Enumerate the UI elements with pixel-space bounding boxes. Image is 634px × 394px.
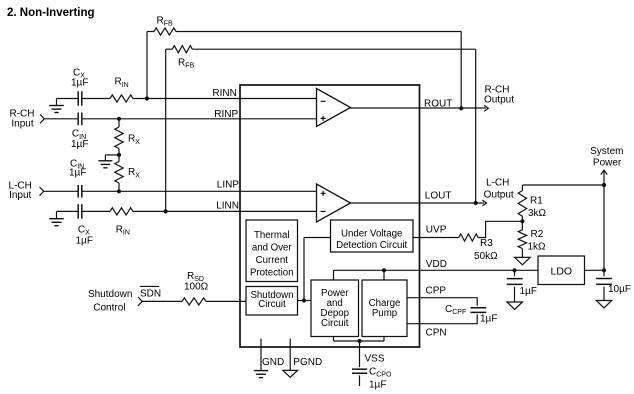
svg-text:1kΩ: 1kΩ [528, 241, 547, 252]
svg-text:RINP: RINP [214, 109, 238, 120]
svg-text:VSS: VSS [365, 354, 385, 365]
svg-text:SDN: SDN [140, 288, 161, 299]
svg-text:LOUT: LOUT [425, 191, 452, 202]
svg-text:100Ω: 100Ω [184, 281, 209, 292]
svg-text:R3: R3 [480, 238, 493, 249]
svg-text:Circuit: Circuit [321, 318, 349, 329]
svg-text:Output: Output [484, 94, 514, 105]
svg-text:Output: Output [484, 189, 514, 200]
svg-text:CPN: CPN [426, 328, 447, 339]
svg-text:L-CH: L-CH [486, 177, 509, 188]
svg-text:R2: R2 [531, 229, 544, 240]
svg-text:Input: Input [11, 119, 33, 130]
svg-text:Shutdown: Shutdown [88, 289, 132, 300]
svg-text:1µF: 1µF [76, 236, 93, 247]
svg-text:R1: R1 [530, 196, 543, 207]
svg-text:and Over: and Over [252, 243, 293, 254]
svg-text:LINP: LINP [217, 180, 240, 191]
svg-text:10µF: 10µF [608, 284, 631, 295]
svg-text:ROUT: ROUT [424, 99, 452, 110]
svg-text:System: System [590, 146, 623, 157]
svg-text:CPP: CPP [426, 286, 447, 297]
svg-text:PGND: PGND [293, 357, 322, 368]
svg-text:LDO: LDO [551, 266, 573, 278]
svg-text:1µF: 1µF [69, 168, 86, 179]
svg-text:Control: Control [93, 302, 125, 313]
svg-text:3kΩ: 3kΩ [528, 208, 547, 219]
svg-text:Current: Current [256, 255, 289, 266]
svg-text:Thermal: Thermal [254, 230, 290, 241]
svg-text:LINN: LINN [216, 201, 239, 212]
svg-text:1µF: 1µF [369, 379, 386, 390]
svg-text:Under Voltage: Under Voltage [341, 228, 402, 239]
svg-text:RINN: RINN [212, 88, 236, 99]
svg-text:Protection: Protection [250, 267, 294, 278]
svg-text:1µF: 1µF [480, 314, 497, 325]
svg-text:Power: Power [593, 158, 622, 169]
svg-text:1µF: 1µF [71, 139, 88, 150]
svg-text:2. Non-Inverting: 2. Non-Inverting [7, 7, 95, 19]
svg-text:1µF: 1µF [71, 78, 88, 89]
svg-text:Circuit: Circuit [258, 299, 286, 310]
svg-text:Pump: Pump [372, 308, 397, 319]
svg-text:Input: Input [9, 190, 31, 201]
svg-text:1µF: 1µF [520, 286, 537, 297]
svg-text:GND: GND [262, 357, 284, 368]
svg-text:R-CH: R-CH [10, 108, 35, 119]
svg-text:UVP: UVP [426, 224, 447, 235]
svg-text:VDD: VDD [426, 259, 447, 270]
svg-text:Detection Circuit: Detection Circuit [336, 240, 407, 251]
svg-text:50kΩ: 50kΩ [474, 251, 498, 262]
